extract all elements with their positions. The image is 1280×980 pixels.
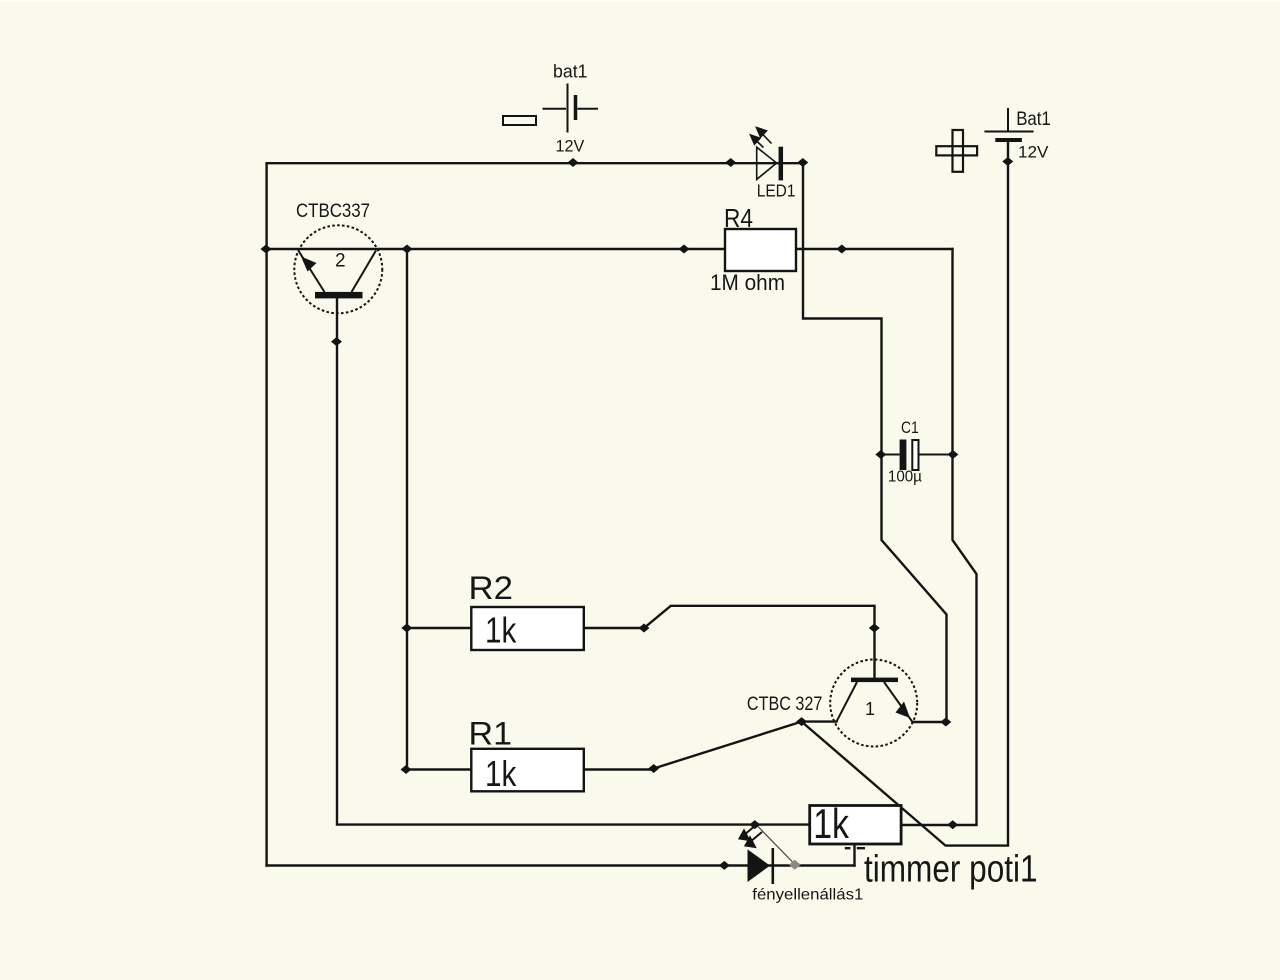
bat1 spare rectangle (503, 116, 536, 125)
svg-text:1M ohm: 1M ohm (710, 270, 785, 295)
capacitor C1 (883, 440, 953, 471)
svg-text:Bat1: Bat1 (1016, 108, 1051, 130)
node LED cathode (797, 158, 808, 167)
wire R1 row (406, 768, 654, 770)
resistor R1 (471, 749, 584, 792)
node R2 left (401, 624, 412, 633)
svg-text:C1: C1 (901, 418, 919, 437)
wire collector row left of R4 (267, 248, 725, 250)
node left rail / collector row (261, 245, 272, 254)
svg-text:R1: R1 (469, 716, 513, 752)
node Q337 emitter (331, 337, 342, 346)
wire middle vertical R4-row to R1 (406, 249, 408, 770)
wire R2 row and base link to Q327 (407, 606, 875, 678)
LED LED1 (751, 128, 781, 181)
wire LDR to poti riser (853, 846, 855, 866)
transistor Q2 CTBC337 (294, 225, 382, 313)
svg-text:R4: R4 (724, 203, 753, 233)
transistor Q1 CTBC 327 (830, 660, 917, 747)
wire Q337 emitter vertical to poti row (337, 298, 810, 825)
resistor R2 (471, 607, 584, 650)
LDR light arrows (740, 825, 763, 847)
svg-text:CTBC337: CTBC337 (296, 201, 370, 222)
svg-text:bat1: bat1 (553, 62, 588, 82)
wire collector row right of R4 (796, 248, 953, 250)
battery Bat1 (984, 108, 1033, 140)
svg-text:CTBC 327: CTBC 327 (747, 694, 823, 715)
svg-text:1k: 1k (485, 753, 517, 794)
svg-text:timmer poti1: timmer poti1 (864, 848, 1038, 890)
svg-text:1: 1 (865, 699, 875, 719)
wire Q327 emitter stub (802, 720, 837, 722)
svg-text:100µ: 100µ (888, 469, 922, 486)
wire bottom LDR row (267, 864, 855, 866)
node R2 right (639, 624, 650, 633)
node R1 left (401, 765, 412, 774)
node Q327 base (869, 624, 880, 633)
node Q327 collector (940, 718, 951, 727)
node R4 left (679, 245, 690, 254)
svg-text:2: 2 (335, 251, 346, 272)
plus symbol cross (936, 130, 977, 172)
wire diagonal node to bottom right and Bat1 vertical (802, 141, 1008, 846)
node Bat1 tap (1002, 157, 1013, 166)
wire LED drop to C1 left to Q327 collector (803, 163, 947, 722)
node C1 left (875, 450, 886, 459)
wire top rail (267, 162, 803, 164)
wire right vertical from R4 to C1 to poti right (901, 249, 977, 825)
node C1 right (947, 450, 958, 459)
LED1 light arrows (751, 128, 772, 148)
wire thin diagonal poti junction to LDR output (758, 826, 795, 864)
node LDR anode (719, 861, 730, 870)
wire Q327 collector stub (913, 721, 947, 723)
resistor R4 (725, 229, 796, 271)
node mid vertical / collector row (402, 245, 413, 254)
battery bat1 (543, 84, 599, 133)
photoresistor fényellenállás1 (740, 825, 773, 884)
wire diagonal node to R1 (654, 722, 802, 769)
node poti left (749, 820, 760, 829)
svg-text:12V: 12V (556, 137, 585, 156)
svg-text:1k: 1k (813, 800, 850, 847)
svg-text:LED1: LED1 (757, 181, 796, 201)
node LDR cathode (gray) (789, 860, 801, 870)
node poti right (947, 820, 958, 829)
svg-text:12V: 12V (1018, 142, 1049, 161)
poti wiper dashes (845, 847, 865, 849)
node R1 right (648, 764, 659, 773)
wire left outer vertical (265, 163, 267, 865)
node bat1 tap (568, 158, 579, 167)
node LED anode (725, 158, 736, 167)
svg-text:fényellenállás1: fényellenállás1 (752, 887, 863, 904)
node R4 right (836, 245, 847, 254)
svg-text:R2: R2 (469, 570, 514, 606)
svg-text:1k: 1k (485, 610, 517, 651)
potentiometer timmer poti1 (810, 806, 901, 845)
node emitter junction (796, 717, 807, 726)
